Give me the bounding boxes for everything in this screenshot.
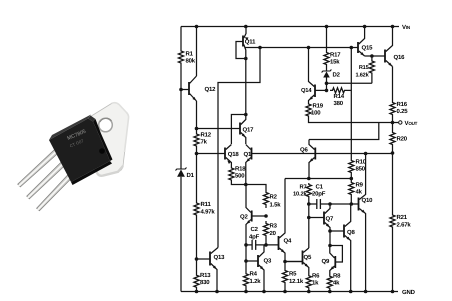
junction R15 top xyxy=(370,54,374,58)
svg-text:GND: GND xyxy=(402,289,416,296)
junction bottom rail x=308.8 xyxy=(307,290,311,294)
svg-text:Q14: Q14 xyxy=(301,87,312,94)
transistor Q5 xyxy=(285,248,309,272)
wire: top Vin rail xyxy=(181,26,399,28)
svg-text:R6: R6 xyxy=(312,273,320,280)
transistor Q6 xyxy=(309,140,315,179)
svg-text:R1: R1 xyxy=(186,51,194,58)
junction bottom rail x=350.7 xyxy=(349,290,353,294)
transistor Q8 xyxy=(344,204,351,292)
label R3 20 xyxy=(270,223,278,238)
svg-text:R12: R12 xyxy=(201,132,212,139)
svg-text:12.1k: 12.1k xyxy=(289,278,304,285)
label R16 0.25 xyxy=(397,101,409,115)
wire: Q6 collector row to Vout row xyxy=(309,123,379,140)
junction bottom rail right xyxy=(391,290,395,294)
junction Q11 base-collector tie xyxy=(244,57,248,61)
label C2 4pF xyxy=(249,226,260,241)
junction bottom rail x=217 xyxy=(215,290,219,294)
svg-text:380: 380 xyxy=(334,100,344,107)
svg-text:Q1: Q1 xyxy=(244,151,252,158)
svg-text:R16: R16 xyxy=(397,101,408,108)
resistor R1 xyxy=(178,48,183,66)
label R12 7k xyxy=(201,132,212,146)
svg-text:4k: 4k xyxy=(333,280,340,287)
resistor R11 xyxy=(194,199,199,219)
wire: tail node to R2 xyxy=(246,185,266,190)
label Q7 xyxy=(326,216,334,223)
wire: Q15 emitter to Q16 base xyxy=(365,55,385,57)
svg-text:VOUT: VOUT xyxy=(405,120,418,127)
label R9 4k xyxy=(356,182,364,196)
junction R2/R3/Q2 base xyxy=(264,214,268,218)
svg-text:1.2k: 1.2k xyxy=(250,278,262,285)
label R21 2.67k xyxy=(397,214,412,229)
svg-text:R21: R21 xyxy=(397,214,408,221)
svg-text:850: 850 xyxy=(356,166,366,173)
svg-text:Q9: Q9 xyxy=(322,258,330,265)
junction C1 left node xyxy=(307,202,311,206)
svg-text:Q13: Q13 xyxy=(214,254,226,261)
wire: right column segments xyxy=(392,67,394,292)
label Q9 xyxy=(322,258,330,265)
svg-text:1.62k: 1.62k xyxy=(356,72,370,79)
svg-text:Q16: Q16 xyxy=(394,54,406,61)
wire: startup link down-left xyxy=(218,48,260,248)
label Q8 xyxy=(347,229,355,236)
svg-text:Q8: Q8 xyxy=(347,229,355,236)
junction Q12 base on left column xyxy=(179,88,183,92)
svg-text:100: 100 xyxy=(311,110,321,117)
transistor Q3 xyxy=(258,245,264,292)
svg-text:C1: C1 xyxy=(316,184,324,191)
label R17 15k xyxy=(330,52,341,66)
svg-text:R7: R7 xyxy=(299,185,306,191)
wire: R18 bottom to tail node xyxy=(231,181,245,185)
resistor R18 xyxy=(229,167,234,181)
junction Q14 base / R14 row xyxy=(325,89,329,93)
resistor R15 xyxy=(369,56,374,78)
label C1 20pF xyxy=(312,184,326,198)
resistor R20 xyxy=(390,131,395,146)
svg-text:15k: 15k xyxy=(330,59,340,66)
svg-text:Q5: Q5 xyxy=(304,254,312,261)
junction on top rail at x=196.5 xyxy=(195,25,199,29)
junction Q10 collector on base row xyxy=(364,152,368,156)
wire: second column segments xyxy=(196,27,198,272)
TO-220 package photo: metal tab xyxy=(86,103,129,176)
svg-text:R18: R18 xyxy=(235,166,246,173)
label Q13 xyxy=(214,254,226,261)
junction bottom rail x=196.5 xyxy=(195,290,199,294)
svg-text:VIN: VIN xyxy=(402,24,410,31)
junction bias row to startup link xyxy=(258,46,262,50)
junction on top rail at x=364.6 xyxy=(363,25,367,29)
junction R9 bottom / Q8 collector node xyxy=(350,202,354,206)
junction bottom rail x=329.8 xyxy=(328,290,332,294)
svg-text:20: 20 xyxy=(270,230,277,237)
svg-text:Q10: Q10 xyxy=(362,197,374,204)
wire: Q7 emitter node to Q8 base xyxy=(330,230,344,232)
svg-text:500: 500 xyxy=(235,173,245,180)
wire: R7 bottom xyxy=(308,198,310,204)
junction top rail / Vin stub xyxy=(391,25,395,29)
transistor Q16 xyxy=(385,27,393,67)
capacitor C2 xyxy=(252,240,256,250)
svg-text:1k: 1k xyxy=(312,280,319,287)
label R19 100 xyxy=(311,103,324,117)
resistor R5 xyxy=(282,262,287,292)
label Q5 xyxy=(304,254,312,261)
node: Vin terminal xyxy=(402,24,410,31)
svg-text:R11: R11 xyxy=(201,201,212,208)
svg-text:R14: R14 xyxy=(334,93,345,100)
svg-text:4k: 4k xyxy=(356,189,363,196)
junction R12 top / Q17 base row xyxy=(195,127,199,131)
svg-text:R17: R17 xyxy=(330,52,341,59)
resistor R6 xyxy=(306,272,311,292)
wire: C1 right lead row to Q10 base xyxy=(321,203,359,205)
transistor Q14 xyxy=(309,48,327,104)
label R15 1.62k xyxy=(356,65,370,79)
wire: Q4 collector top corner to mirror row xyxy=(284,179,286,183)
label Q3 xyxy=(264,258,272,265)
zener diode D1 xyxy=(176,168,187,177)
transistor Q13 xyxy=(197,248,219,292)
svg-text:R3: R3 xyxy=(270,223,278,230)
label D2 xyxy=(333,72,341,79)
resistor R19 xyxy=(306,103,311,117)
TO-220 package photo: three leads xyxy=(18,146,76,211)
svg-text:Q3: Q3 xyxy=(264,258,272,265)
label Q15 xyxy=(362,45,374,52)
label Q1 xyxy=(244,151,252,158)
junction base row Q18 xyxy=(195,152,199,156)
junction Q13 base xyxy=(195,257,199,261)
svg-text:R4: R4 xyxy=(250,271,258,278)
wire: C2 left lead xyxy=(246,244,252,246)
label Q2 xyxy=(240,214,248,221)
svg-text:Q11: Q11 xyxy=(245,39,256,46)
wire: R19 bottom to Vout row xyxy=(309,117,393,123)
resistor R7 xyxy=(306,183,311,198)
svg-text:D1: D1 xyxy=(187,172,195,179)
junction Q9 collector node xyxy=(328,244,332,248)
svg-text:R5: R5 xyxy=(289,271,297,278)
svg-text:20pF: 20pF xyxy=(312,191,326,198)
svg-text:4pF: 4pF xyxy=(249,234,260,241)
resistor R3 xyxy=(263,221,268,238)
label R11 4.97k xyxy=(201,201,216,216)
svg-text:R19: R19 xyxy=(313,103,324,110)
junction on top rail at x=245.8 xyxy=(244,25,248,29)
junction bias row / R10 column xyxy=(350,46,354,50)
svg-text:2.67k: 2.67k xyxy=(397,222,412,229)
svg-text:Q17: Q17 xyxy=(243,127,255,134)
svg-text:R2: R2 xyxy=(270,194,278,201)
svg-text:10.2k: 10.2k xyxy=(293,191,307,198)
wire: common base row right part xyxy=(252,153,393,155)
label Q12 xyxy=(205,86,217,93)
wire: R14 to divider column xyxy=(347,89,351,91)
label Q4 xyxy=(284,238,292,245)
svg-text:4.97k: 4.97k xyxy=(201,209,216,216)
svg-text:Q15: Q15 xyxy=(362,45,374,52)
transistor Q17 xyxy=(240,115,246,145)
svg-text:Q7: Q7 xyxy=(326,216,334,223)
junction bottom rail x=365.6 xyxy=(364,290,368,294)
resistor R16 xyxy=(390,101,395,116)
junction Vout node xyxy=(391,121,395,125)
svg-text:R15: R15 xyxy=(359,65,369,71)
transistor Q4 xyxy=(279,183,286,258)
wire: R17 column xyxy=(326,27,328,91)
wire: down to Q9 collector xyxy=(329,231,331,246)
label Q17 xyxy=(243,127,255,134)
TO-220 package photo: tab hole xyxy=(99,118,113,132)
wire: vertical to Q3 base and R4 xyxy=(245,245,247,268)
transistor Q12 xyxy=(181,76,197,101)
node: Vout terminal xyxy=(393,120,418,127)
label R1 80k xyxy=(186,51,196,65)
transistor Q11 xyxy=(236,27,249,115)
svg-text:Q18: Q18 xyxy=(228,151,240,158)
transistor Q1 xyxy=(246,145,252,185)
svg-text:C2: C2 xyxy=(251,226,259,233)
wire: divider column xyxy=(350,48,352,205)
label Q16 xyxy=(394,54,406,61)
svg-text:Q2: Q2 xyxy=(240,214,248,221)
wire: left column from Vin rail xyxy=(180,27,182,292)
svg-text:0.25: 0.25 xyxy=(397,108,409,115)
svg-text:R13: R13 xyxy=(200,272,211,279)
label Q10 xyxy=(362,197,374,204)
svg-text:Q12: Q12 xyxy=(205,86,217,93)
resistor R13 xyxy=(194,271,199,292)
transistor Q7 xyxy=(324,204,330,231)
svg-text:D2: D2 xyxy=(333,72,341,79)
transistor Q18 xyxy=(225,145,231,168)
label R18 500 xyxy=(235,166,246,180)
svg-text:Q6: Q6 xyxy=(300,147,308,154)
label R10 850 xyxy=(356,159,367,173)
wire: bias row from Q11 to Q15 base xyxy=(245,47,358,49)
wire: Q7 base row xyxy=(309,217,324,219)
resistor R17 xyxy=(324,51,329,66)
label R2 1.5k xyxy=(270,194,282,209)
junction Q17 collector node xyxy=(244,113,248,117)
junction bias row / Q14 collector xyxy=(307,46,311,50)
junction Q4 emitter / R5 / Q5 base xyxy=(283,260,287,264)
wire: row to R15 bottom xyxy=(327,78,372,83)
label Q14 xyxy=(301,87,312,94)
junction on top rail at x=326.5 xyxy=(325,25,329,29)
label Q18 xyxy=(228,151,240,158)
label Q6 xyxy=(300,147,308,154)
svg-text:80k: 80k xyxy=(186,58,196,65)
resistor R14 xyxy=(330,88,347,93)
label D1 xyxy=(187,172,195,179)
resistor R9 xyxy=(349,181,354,196)
junction Q6 emitter / R7 top xyxy=(307,177,311,181)
wire: Q4 emitter node row to Q5 base xyxy=(285,257,303,262)
label R13 830 xyxy=(200,272,211,286)
wire: mirror row xyxy=(285,178,351,180)
label R14 380 xyxy=(334,93,345,107)
wire: C1 left lead xyxy=(309,203,317,205)
wire: C2 right lead to Q4 base xyxy=(256,244,279,246)
transistor Q10 xyxy=(359,154,366,292)
svg-text:Q4: Q4 xyxy=(284,238,292,245)
resistor R8 xyxy=(327,273,332,292)
label R6 1k xyxy=(312,273,320,287)
wire: Q3 base row xyxy=(246,260,258,262)
label R5 12.1k xyxy=(289,271,304,286)
zener diode D2 xyxy=(322,70,332,78)
transistor Q2 xyxy=(246,185,266,245)
resistor R10 xyxy=(349,157,354,176)
wire: R3 bottom to C2 row xyxy=(265,238,267,245)
svg-text:7k: 7k xyxy=(201,139,208,146)
junction diff pair tail node xyxy=(244,183,248,187)
transistor Q15 xyxy=(358,27,365,57)
transistor Q9 xyxy=(330,246,343,274)
capacitor C1 xyxy=(317,199,321,209)
wire: Q17 base row xyxy=(197,128,241,130)
junction C2 left xyxy=(244,243,248,247)
junction Q7 base node xyxy=(307,216,311,220)
junction R20 bottom / base row xyxy=(391,151,395,155)
svg-text:R8: R8 xyxy=(333,273,341,280)
wire: column to Q5 collector xyxy=(308,204,310,248)
junction bottom rail x=285 xyxy=(283,290,287,294)
junction Q7 emitter / Q8 base node xyxy=(328,229,332,233)
svg-text:1.5k: 1.5k xyxy=(270,202,282,209)
wire: Q17 collector loop to Q18 collector xyxy=(231,115,245,145)
svg-text:830: 830 xyxy=(200,279,210,286)
label R7 10.2k xyxy=(293,185,307,198)
resistor R4 xyxy=(243,268,248,292)
wire: bottom ground rail xyxy=(181,291,398,293)
junction D2 anode / R15 return row xyxy=(325,82,329,86)
junction bottom rail x=246 xyxy=(244,290,248,294)
svg-text:R20: R20 xyxy=(397,136,408,143)
label R20 xyxy=(397,136,408,143)
TO-220 package photo: black plastic body xyxy=(49,115,113,186)
resistor R12 xyxy=(194,132,199,148)
ground GND label xyxy=(402,289,416,296)
resistor R2 xyxy=(263,189,268,208)
junction Q3 base node xyxy=(244,259,248,263)
junction bottom rail x=264 xyxy=(262,290,266,294)
junction R3/Q3 collector on C2 row xyxy=(264,243,268,247)
label R8 4k xyxy=(333,273,341,287)
label Q11 xyxy=(245,39,256,46)
resistor R21 xyxy=(390,213,395,229)
wire: common base row left part xyxy=(197,153,226,155)
svg-text:R9: R9 xyxy=(356,182,364,189)
label R4 1.2k xyxy=(250,271,262,286)
junction R10 bottom / R9 top xyxy=(350,177,354,181)
junction Q7 collector node xyxy=(328,202,332,206)
